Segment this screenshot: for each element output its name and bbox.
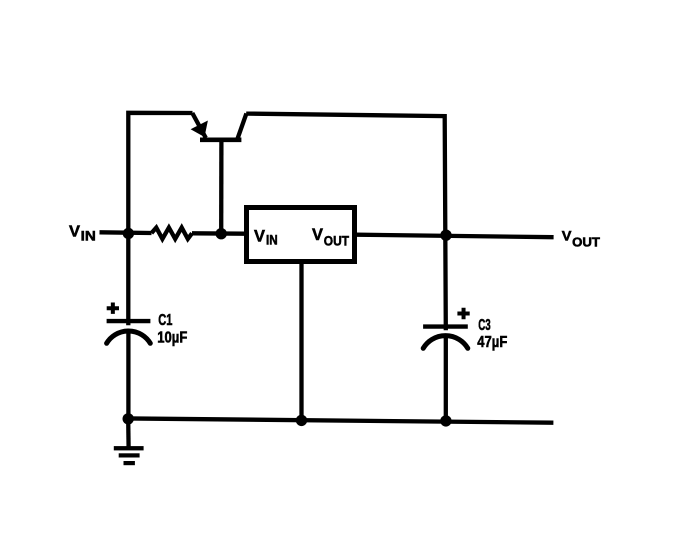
capacitor C3 top plate (423, 324, 468, 328)
svg-text:V: V (69, 224, 80, 241)
transistor Q1 collector lead (237, 114, 246, 140)
svg-text:V: V (312, 225, 324, 244)
svg-text:OUT: OUT (324, 232, 350, 248)
capacitor C3 curved plate (423, 336, 468, 349)
pin label VIN (regulator) (254, 227, 278, 248)
capacitor C1 top plate (107, 319, 151, 323)
pin label VOUT (regulator) (312, 225, 349, 248)
node ground-left junction dot (123, 413, 134, 424)
transistor Q1 base lead (219, 140, 223, 234)
svg-text:C1: C1 (158, 312, 172, 329)
svg-text:10µF: 10µF (157, 329, 187, 346)
node Vout junction dot (440, 230, 451, 241)
wire regulator Vout pin to output (356, 235, 554, 238)
node base junction dot (216, 228, 227, 239)
svg-text:OUT: OUT (572, 235, 600, 250)
wire left vertical lower (C1 to bottom rail) (126, 333, 130, 421)
wire right vertical lower (C3 to bottom rail) (444, 338, 448, 422)
transistor Q1 base bar (200, 138, 241, 143)
svg-text:IN: IN (81, 228, 96, 244)
wire bottom rail (124, 418, 553, 422)
wire top rail left + left vertical upper (128, 113, 192, 325)
svg-text:V: V (562, 229, 572, 245)
svg-text:V: V (254, 227, 266, 246)
capacitor C1 curved plate (107, 331, 151, 343)
capacitor C1 plus sign (107, 303, 119, 314)
label VIN (input) (69, 224, 96, 244)
resistor R1 (152, 228, 193, 239)
node ground-right junction dot (440, 415, 451, 426)
node ground-middle junction dot (296, 415, 307, 426)
wire regulator ground lead (299, 262, 303, 420)
wire Vin stub to resistor (100, 230, 152, 235)
wire resistor to regulator Vin pin (192, 231, 245, 236)
svg-text:C3: C3 (478, 317, 491, 334)
svg-text:47µF: 47µF (477, 334, 507, 351)
capacitor C3 plus sign (457, 308, 469, 319)
svg-text:IN: IN (266, 232, 278, 248)
transistor Q1 emitter lead (192, 113, 206, 138)
label VOUT (output) (562, 229, 600, 250)
wire top rail right + right vertical upper (246, 114, 446, 331)
regulator U1 box (247, 208, 355, 262)
node Vin junction dot (123, 228, 134, 239)
wire ground stub (126, 419, 131, 448)
transistor Q1 emitter arrow (191, 121, 208, 138)
ground symbol bars (114, 446, 144, 465)
